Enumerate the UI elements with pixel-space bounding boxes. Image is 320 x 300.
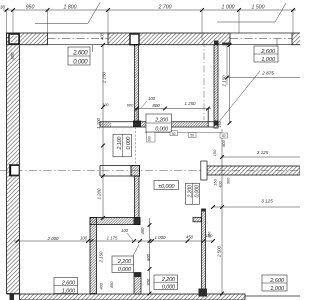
junction column top wall / partition P1 — [130, 34, 139, 45]
dimension line 1 425 y207 — [211, 198, 300, 209]
svg-text:400: 400 — [217, 180, 222, 187]
svg-text:50: 50 — [172, 132, 176, 136]
dimension text 450 — [186, 234, 194, 239]
svg-text:1 800: 1 800 — [64, 4, 77, 10]
partition P2 horizontal y121.8 — [100, 122, 214, 127]
elevation box E1 2,600/0,000 — [68, 47, 90, 66]
svg-text:0,000: 0,000 — [195, 185, 201, 197]
svg-text:3 125: 3 125 — [261, 198, 273, 203]
elevation box E10 2,600/1,000 — [262, 275, 287, 292]
svg-text:100: 100 — [148, 136, 152, 142]
svg-text:0,000: 0,000 — [73, 60, 88, 66]
wall stub left of bottom-right wall — [193, 217, 202, 222]
dimension text 30 — [0, 5, 5, 10]
svg-text:1 000: 1 000 — [155, 235, 167, 240]
dimension text 1 175 — [107, 235, 118, 240]
svg-text:800: 800 — [152, 103, 160, 108]
dimension line vertical x222 (2 500) — [216, 129, 224, 295]
dimension text 2 000 — [47, 236, 60, 241]
svg-text:400: 400 — [99, 32, 104, 40]
svg-text:50: 50 — [222, 134, 226, 138]
top dimension line — [3, 8, 296, 40]
svg-text:1 000: 1 000 — [222, 4, 235, 10]
junction square axis/partition — [131, 166, 140, 177]
pilaster left wall mid — [10, 165, 20, 177]
leader diagonal to elevation box right room — [218, 71, 260, 123]
svg-text:150: 150 — [212, 149, 217, 156]
svg-text:700: 700 — [146, 278, 151, 286]
partition P-mid end cap dark — [134, 218, 141, 226]
leader diagonal bottom middle box — [133, 245, 139, 257]
elevation box E8 2,200/0,000 — [154, 275, 178, 290]
svg-text:0,000: 0,000 — [162, 284, 176, 290]
svg-text:100: 100 — [80, 235, 88, 240]
dimension text 100 leader — [121, 228, 133, 240]
svg-text:1,000: 1,000 — [62, 288, 76, 294]
dimension text 100 left — [80, 235, 88, 240]
elevation box E7 2,200/0,000 — [112, 256, 134, 273]
svg-text:100: 100 — [207, 231, 212, 238]
dimension text 1 000 — [155, 235, 167, 240]
svg-text:2 500: 2 500 — [216, 245, 221, 258]
wall segment B x134 bottom — [134, 273, 141, 295]
svg-text:100: 100 — [148, 96, 156, 101]
partition P1 vertical x134.5 — [135, 45, 139, 121]
axis centerline top wall opening 1 — [48, 38, 109, 40]
dimension text 2 150 bottom-middle room — [98, 251, 103, 264]
svg-text:1 100: 1 100 — [96, 117, 101, 129]
svg-text:30: 30 — [0, 5, 5, 10]
partition P-mid vertical x134.5 — [135, 176, 140, 218]
svg-text:400: 400 — [98, 282, 103, 289]
dimension text 1 800 — [64, 4, 77, 10]
rotated small dims right-middle above wall — [212, 120, 226, 156]
wall horizontal bottom-left room y217.5 — [90, 218, 140, 225]
dimension line vertical x229.5 (2 150 top right) — [222, 43, 232, 125]
svg-text:2 150: 2 150 — [222, 75, 227, 88]
svg-text:450: 450 — [186, 234, 194, 239]
column top-left in wall — [9, 34, 19, 44]
dimension line vertical x103 upper (2 150) — [101, 43, 106, 109]
axis line vertical x204 — [203, 40, 205, 120]
svg-text:500: 500 — [10, 52, 15, 60]
wall top segment A — [7, 33, 48, 45]
svg-text:2,200: 2,200 — [117, 259, 132, 265]
wall top segment B — [108, 33, 230, 45]
level mark box 0,000 — [154, 181, 179, 190]
junction dark bottom-left — [10, 294, 15, 300]
wall bottom exterior — [7, 294, 301, 300]
dimension text 950 — [26, 5, 35, 11]
dimension text 800 — [152, 103, 160, 108]
svg-text:800: 800 — [146, 253, 151, 261]
svg-text:2 700: 2 700 — [158, 4, 172, 10]
dimension line vertical x103 lower — [101, 107, 105, 220]
dimension text 100 top of x103 — [102, 103, 109, 107]
axis centerline horizontal mid — [0, 170, 300, 172]
svg-text:1,000: 1,000 — [270, 286, 285, 292]
lintel line with leader top-left — [35, 3, 100, 24]
svg-text:1 175: 1 175 — [107, 235, 118, 240]
junction dark top wall / partition P3 — [214, 41, 231, 46]
dimension line 2 875 y77.5 — [225, 45, 300, 85]
dimension text 500 on left wall — [10, 52, 15, 60]
dimension text 1 100 rotated — [96, 117, 101, 129]
svg-text:3 125: 3 125 — [257, 150, 269, 155]
svg-text:950: 950 — [26, 5, 35, 11]
dimension line 3 125 y157 — [220, 150, 300, 159]
svg-text:450: 450 — [140, 227, 145, 235]
svg-text:0,000: 0,000 — [118, 267, 132, 273]
dimension text 2 700 — [158, 4, 172, 10]
svg-text:2 000: 2 000 — [47, 236, 60, 241]
stub line below top wall near box 1 — [92, 45, 94, 52]
dimension text 100 right — [206, 233, 213, 238]
corner dark P2/P3 — [209, 109, 219, 128]
dimension text 1 000 — [222, 4, 235, 10]
wall top-right corner column — [292, 33, 301, 45]
svg-text:±0,000: ±0,000 — [158, 184, 175, 190]
svg-text:100: 100 — [121, 228, 129, 233]
elevation box E6 rotated 2,200/0,000 — [113, 134, 132, 157]
wall left exterior — [7, 33, 20, 294]
svg-text:2,600: 2,600 — [61, 280, 76, 286]
elevation box E2 2,600/1,000 — [254, 46, 278, 63]
svg-text:100: 100 — [102, 103, 109, 107]
junction dark bottom wall / right wall — [199, 289, 208, 297]
svg-text:450: 450 — [109, 281, 114, 288]
opening 2 top wall — [230, 33, 292, 45]
svg-text:2,200: 2,200 — [154, 118, 168, 124]
svg-text:1,000: 1,000 — [261, 57, 276, 63]
svg-text:600: 600 — [127, 102, 134, 107]
wall vertical bottom-left room x90 — [90, 218, 97, 294]
svg-text:2,600: 2,600 — [260, 49, 276, 55]
elevation box E2 leader — [276, 39, 278, 47]
elevation box E5 rotated 2,200/0,000 — [186, 183, 201, 204]
svg-text:0,000: 0,000 — [126, 137, 132, 150]
dimension text 100 on bottom-right wall — [207, 231, 212, 238]
dimension text 450 bottom — [109, 281, 114, 288]
svg-text:50: 50 — [190, 134, 194, 138]
svg-text:1 500: 1 500 — [252, 4, 265, 10]
dimension text 1 500 — [252, 4, 265, 10]
opening 1 top wall — [48, 33, 109, 45]
dimension line bottom horizontal y241 — [14, 239, 215, 243]
lintel line with leader top-right — [217, 3, 286, 22]
svg-text:2 150: 2 150 — [98, 251, 103, 264]
elevation box E9 2,600/1,000 — [54, 278, 78, 295]
svg-text:2,200: 2,200 — [161, 277, 176, 283]
elevation box E3 2,200/0,000 — [146, 114, 172, 132]
svg-text:300: 300 — [225, 177, 230, 184]
svg-text:2,600: 2,600 — [72, 51, 88, 57]
rotated small dims right-middle below wall — [213, 177, 231, 188]
dimension line mid horizontal y108.5 — [134, 107, 211, 127]
hidden wall dashed line x135.5 — [135, 127, 137, 166]
dimension text 1 200 rotated — [96, 188, 101, 200]
partition P3 vertical x214 — [214, 45, 218, 128]
wall horizontal right-middle y166 — [207, 166, 300, 175]
dimension text 400 top opening — [99, 32, 104, 40]
axis line vertical x13 — [12, 10, 14, 44]
dimension line vertical x149.5 (450/800/700) — [140, 218, 151, 295]
svg-text:2 875: 2 875 — [261, 70, 274, 75]
svg-text:2,200: 2,200 — [188, 185, 194, 198]
dimension text 400 bottom — [98, 282, 103, 289]
svg-text:2,600: 2,600 — [269, 278, 285, 284]
svg-text:0,000: 0,000 — [155, 126, 168, 132]
dimension text 600 on wall — [127, 102, 134, 107]
partition P1 end cap dark — [133, 121, 141, 128]
dimension text 100 above 800 — [141, 96, 156, 108]
svg-text:2,100: 2,100 — [117, 137, 123, 151]
small line y132.5 with tiny 50 boxes — [145, 131, 228, 142]
svg-text:800: 800 — [221, 139, 226, 146]
svg-text:1 200: 1 200 — [96, 188, 101, 200]
dimension text 1 250 — [185, 101, 197, 106]
svg-text:2 150: 2 150 — [101, 71, 106, 84]
svg-text:1 250: 1 250 — [185, 101, 197, 106]
wall end block x201 — [201, 161, 207, 180]
axis centerline top wall opening 2 — [230, 38, 292, 40]
axis wall opening y165.5 — [100, 166, 131, 177]
wall vertical bottom-right x201.5 — [202, 209, 206, 295]
